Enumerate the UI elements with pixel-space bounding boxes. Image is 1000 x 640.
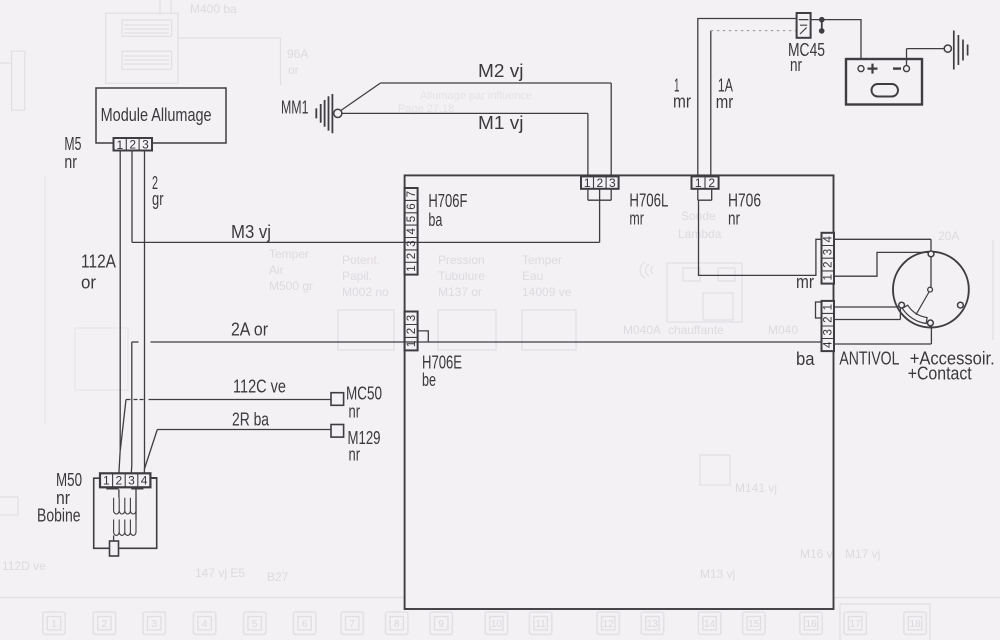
svg-text:17: 17 (850, 619, 862, 630)
svg-text:112D ve: 112D ve (2, 559, 46, 573)
svg-text:nr: nr (64, 152, 77, 172)
svg-text:+Contact: +Contact (908, 364, 972, 384)
svg-text:3: 3 (823, 249, 835, 255)
svg-text:4: 4 (823, 341, 835, 348)
svg-text:chauffante: chauffante (668, 323, 724, 337)
svg-text:mr: mr (796, 272, 814, 292)
svg-text:Lambda: Lambda (678, 227, 722, 241)
svg-text:5: 5 (406, 216, 418, 222)
svg-text:4: 4 (406, 228, 418, 235)
svg-text:2: 2 (129, 138, 136, 152)
svg-text:mr: mr (629, 208, 644, 228)
svg-text:Module Allumage: Module Allumage (101, 105, 212, 125)
svg-text:3: 3 (406, 315, 418, 321)
svg-text:2: 2 (116, 474, 123, 488)
svg-text:4: 4 (141, 474, 148, 488)
svg-text:Eau: Eau (522, 269, 543, 283)
svg-text:12: 12 (603, 619, 615, 630)
svg-text:147 vj E5: 147 vj E5 (195, 566, 245, 580)
svg-text:ba: ba (796, 349, 815, 369)
svg-text:M50: M50 (56, 470, 82, 490)
svg-text:3: 3 (609, 176, 616, 190)
svg-text:H706F: H706F (428, 191, 467, 211)
svg-text:1: 1 (823, 274, 835, 280)
svg-text:M3 vj: M3 vj (231, 222, 271, 242)
svg-text:7: 7 (406, 191, 418, 197)
svg-text:1: 1 (584, 176, 591, 190)
svg-text:2: 2 (596, 176, 603, 190)
svg-text:Bobine: Bobine (37, 506, 81, 526)
svg-text:2: 2 (823, 316, 835, 322)
svg-text:5: 5 (252, 619, 258, 630)
svg-text:Temper: Temper (269, 247, 309, 261)
svg-text:Pression: Pression (438, 253, 485, 267)
svg-text:M002 no: M002 no (342, 285, 389, 299)
svg-text:112A: 112A (81, 252, 116, 272)
svg-text:B27: B27 (267, 570, 289, 584)
svg-text:14: 14 (704, 619, 716, 630)
svg-text:ANTIVOL: ANTIVOL (839, 349, 899, 369)
svg-text:2A or: 2A or (231, 320, 268, 340)
svg-text:nr: nr (728, 208, 740, 228)
svg-text:20A: 20A (938, 229, 959, 243)
svg-text:2: 2 (406, 328, 418, 334)
svg-text:1: 1 (117, 138, 124, 152)
svg-text:M1 vj: M1 vj (478, 113, 524, 133)
svg-text:3: 3 (151, 619, 157, 630)
svg-text:M400 ba: M400 ba (190, 2, 237, 16)
svg-text:112C ve: 112C ve (233, 377, 286, 397)
svg-text:13: 13 (647, 619, 659, 630)
svg-text:2R ba: 2R ba (232, 410, 270, 430)
svg-text:1: 1 (103, 474, 110, 488)
svg-text:nr: nr (790, 55, 802, 75)
svg-text:M16 vj: M16 vj (800, 547, 835, 561)
svg-text:1: 1 (406, 265, 418, 271)
svg-text:or: or (81, 273, 96, 293)
svg-text:M040: M040 (768, 323, 798, 337)
svg-text:M2 vj: M2 vj (478, 61, 524, 81)
svg-text:nr: nr (349, 402, 361, 422)
svg-text:gr: gr (152, 189, 164, 209)
svg-text:Air: Air (269, 263, 284, 277)
svg-text:MC50: MC50 (346, 384, 382, 404)
svg-text:Tubulure: Tubulure (438, 269, 485, 283)
svg-text:3: 3 (406, 240, 418, 246)
svg-text:6: 6 (302, 619, 308, 630)
svg-text:Temper: Temper (522, 253, 562, 267)
svg-text:M5: M5 (64, 134, 81, 154)
svg-text:M137 or: M137 or (438, 285, 482, 299)
svg-text:2: 2 (708, 176, 715, 190)
svg-text:4: 4 (202, 619, 208, 630)
svg-text:8: 8 (394, 619, 400, 630)
svg-text:be: be (422, 370, 436, 390)
svg-text:M17 vj: M17 vj (845, 547, 880, 561)
svg-text:16: 16 (805, 619, 817, 630)
svg-text:7: 7 (349, 619, 355, 630)
svg-text:2: 2 (823, 261, 835, 267)
svg-text:2: 2 (406, 253, 418, 259)
svg-text:M500 gr: M500 gr (269, 279, 313, 293)
svg-text:nr: nr (349, 445, 361, 465)
svg-text:M040A: M040A (623, 323, 661, 337)
svg-text:3: 3 (823, 329, 835, 335)
svg-text:M13 vj: M13 vj (700, 567, 735, 581)
svg-text:3: 3 (142, 138, 149, 152)
svg-text:mr: mr (716, 92, 734, 112)
svg-text:Papil.: Papil. (342, 269, 372, 283)
svg-text:11: 11 (535, 619, 546, 630)
svg-text:ba: ba (428, 210, 443, 230)
svg-text:96A: 96A (287, 47, 308, 61)
svg-text:1: 1 (51, 619, 57, 630)
svg-text:M141 vj: M141 vj (735, 481, 777, 495)
svg-text:15: 15 (748, 619, 760, 630)
svg-text:mr: mr (673, 92, 691, 112)
svg-text:Allumage par influence: Allumage par influence (420, 90, 532, 102)
svg-text:1: 1 (406, 341, 418, 347)
svg-text:2: 2 (102, 619, 108, 630)
svg-text:10: 10 (491, 619, 503, 630)
svg-text:MM1: MM1 (281, 97, 309, 117)
svg-text:9: 9 (438, 619, 444, 630)
svg-text:4: 4 (823, 236, 835, 243)
svg-text:1: 1 (695, 176, 702, 190)
svg-text:or: or (288, 63, 299, 77)
svg-text:18: 18 (909, 619, 921, 630)
svg-text:3: 3 (128, 474, 135, 488)
svg-text:14009 ve: 14009 ve (522, 285, 572, 299)
svg-text:6: 6 (406, 203, 418, 209)
svg-text:1: 1 (823, 304, 835, 310)
svg-text:Potent.: Potent. (342, 253, 380, 267)
